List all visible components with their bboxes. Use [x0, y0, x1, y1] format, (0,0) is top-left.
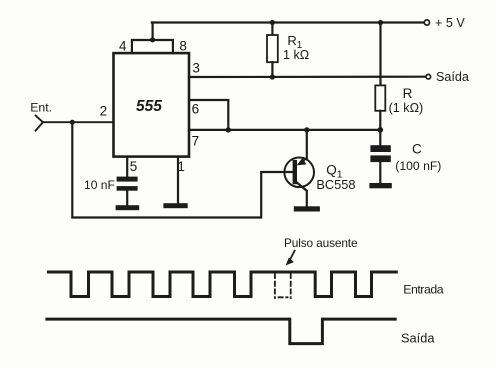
wire dashed missing pulse [275, 274, 291, 298]
node junction pin7 / Q1 emitter [304, 127, 309, 132]
svg-text:Ent.: Ent. [30, 100, 52, 114]
node junction R bottom / pin7 / C top [378, 127, 384, 133]
svg-text:555: 555 [136, 98, 162, 115]
node junction R top on +5V rail [378, 20, 383, 25]
waveform Saída output [47, 319, 395, 344]
resistor R1 body [267, 23, 278, 78]
svg-text:(1 kΩ): (1 kΩ) [389, 101, 424, 115]
svg-text:1 kΩ: 1 kΩ [283, 48, 309, 62]
ground bar under Q1 collector [294, 206, 320, 211]
node junction R1 top on +5V rail [270, 20, 275, 25]
wire +5V terminal circle [424, 20, 429, 25]
wire pin 6 [189, 100, 228, 130]
svg-text:C: C [412, 142, 422, 157]
wire arrow to missing pulse [290, 251, 294, 259]
node junction dot on bridge [150, 37, 155, 42]
ground bar under 10nF [116, 205, 140, 210]
wire +5V top rail [152, 21, 425, 23]
transistor Q1 [284, 130, 314, 206]
ground bar under pin 1 [163, 203, 187, 208]
node junction pin6/pin7 [226, 127, 231, 132]
op-amp U1 555 IC box [114, 53, 190, 157]
svg-text:(100 nF): (100 nF) [395, 159, 441, 173]
svg-text:1: 1 [177, 159, 185, 174]
capacitor 10nF on pin 5 [117, 157, 138, 206]
ground bar under C [369, 183, 391, 188]
svg-text:2: 2 [100, 103, 108, 118]
svg-text:R: R [403, 86, 413, 101]
svg-text:3: 3 [192, 61, 200, 76]
wire pin 3 output to Saída terminal [189, 76, 426, 79]
wire from rail down to pins 4-8 bridge [152, 23, 154, 41]
svg-text:BC558: BC558 [316, 177, 355, 192]
wire input down and across to Q1 base [72, 122, 292, 217]
svg-text:7: 7 [192, 133, 200, 148]
wire pin 1 to ground [177, 157, 179, 204]
resistor R body [375, 23, 385, 130]
svg-text:5: 5 [130, 159, 138, 174]
svg-text:Pulso ausente: Pulso ausente [284, 236, 358, 250]
svg-text:Saída: Saída [436, 70, 469, 84]
capacitor C [370, 130, 390, 183]
wire Saída terminal circle [426, 74, 431, 79]
svg-text:Saída: Saída [401, 330, 435, 345]
waveform Entrada square wave [49, 272, 397, 297]
svg-text:+ 5 V: + 5 V [435, 16, 465, 30]
svg-text:10 nF: 10 nF [84, 178, 115, 192]
wire pin 7 [189, 129, 380, 131]
svg-text:8: 8 [179, 39, 187, 54]
svg-text:4: 4 [119, 38, 127, 53]
node input junction dot [70, 120, 75, 125]
svg-text:6: 6 [192, 101, 200, 116]
wire pins 4-8 bridge [132, 40, 173, 53]
wire input terminal to pin 2 [36, 116, 114, 131]
node junction R1 bottom on output line [270, 74, 275, 79]
svg-text:Entrada: Entrada [403, 283, 444, 297]
